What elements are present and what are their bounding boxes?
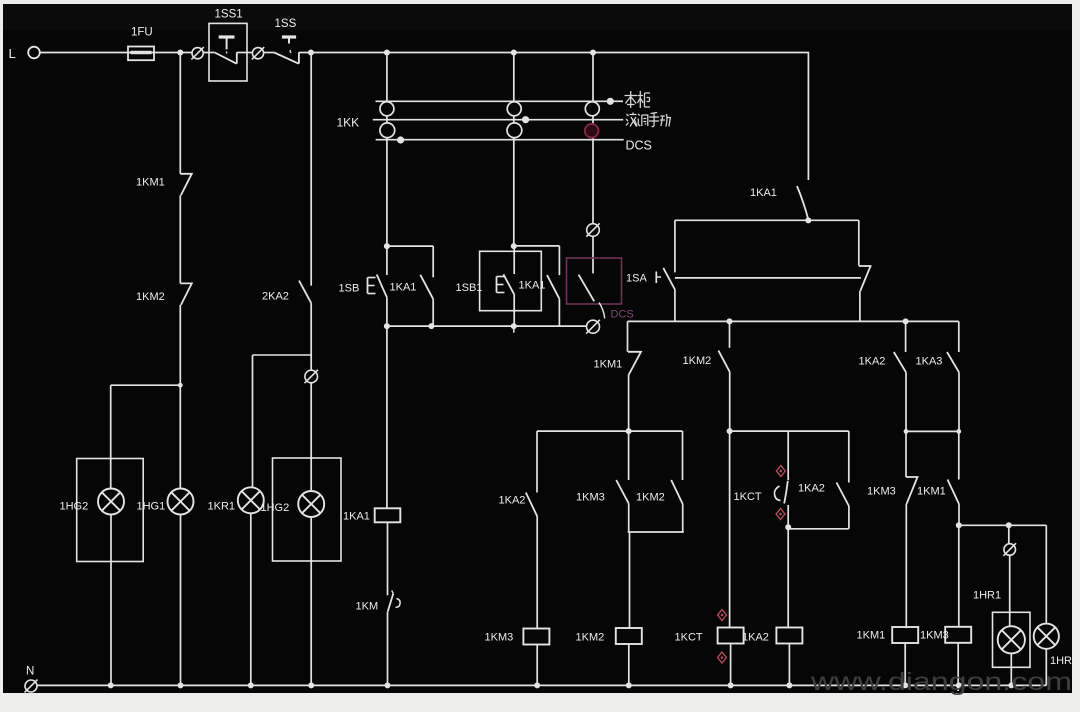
svg-text:1KA1: 1KA1 [750,187,777,199]
svg-text:1KM2: 1KM2 [636,492,665,504]
svg-text:1KA3: 1KA3 [916,356,943,368]
svg-text:1HG2: 1HG2 [261,502,290,514]
svg-text:1SS: 1SS [275,18,297,30]
svg-text:1SA: 1SA [626,273,647,285]
svg-text:1HG1: 1HG1 [137,501,166,513]
svg-text:1KM1: 1KM1 [917,486,946,498]
svg-text:www.diangon.com: www.diangon.com [810,668,1072,696]
svg-text:1KM1: 1KM1 [857,630,886,642]
svg-text:1KM3: 1KM3 [576,492,605,504]
svg-text:DCS: DCS [611,309,634,321]
svg-text:1KCT: 1KCT [675,632,703,644]
svg-text:1HR: 1HR [1050,655,1072,667]
svg-text:1SS1: 1SS1 [215,9,243,21]
svg-text:1KA2: 1KA2 [499,495,526,507]
svg-text:1KM2: 1KM2 [576,632,605,644]
svg-text:1FU: 1FU [131,27,153,39]
svg-text:1KA2: 1KA2 [798,483,825,495]
svg-text:1KM1: 1KM1 [136,177,165,189]
svg-text:1KM1: 1KM1 [594,359,623,371]
svg-text:1KM3: 1KM3 [485,632,514,644]
svg-text:1HG2: 1HG2 [60,501,89,513]
svg-text:1KR1: 1KR1 [208,501,236,513]
svg-text:1KA2: 1KA2 [859,356,886,368]
svg-text:1KA1: 1KA1 [519,280,546,292]
svg-text:1HR1: 1HR1 [973,590,1001,602]
svg-text:N: N [26,666,34,678]
svg-text:1KK: 1KK [337,116,360,130]
svg-text:1KCT: 1KCT [734,491,762,503]
svg-text:DCS: DCS [626,139,652,153]
svg-text:1KM: 1KM [356,601,379,613]
svg-text:2KA2: 2KA2 [262,291,289,303]
svg-text:1KM2: 1KM2 [683,355,712,367]
svg-text:1SB1: 1SB1 [456,282,483,294]
svg-text:L: L [9,46,16,61]
svg-text:1KA2: 1KA2 [742,632,769,644]
svg-text:1SB: 1SB [339,283,360,295]
svg-text:1KM2: 1KM2 [136,291,165,303]
svg-text:1KM3: 1KM3 [920,630,949,642]
svg-text:1KA1: 1KA1 [390,282,417,294]
svg-text:1KA1: 1KA1 [343,511,370,523]
svg-text:1KM3: 1KM3 [867,486,896,498]
